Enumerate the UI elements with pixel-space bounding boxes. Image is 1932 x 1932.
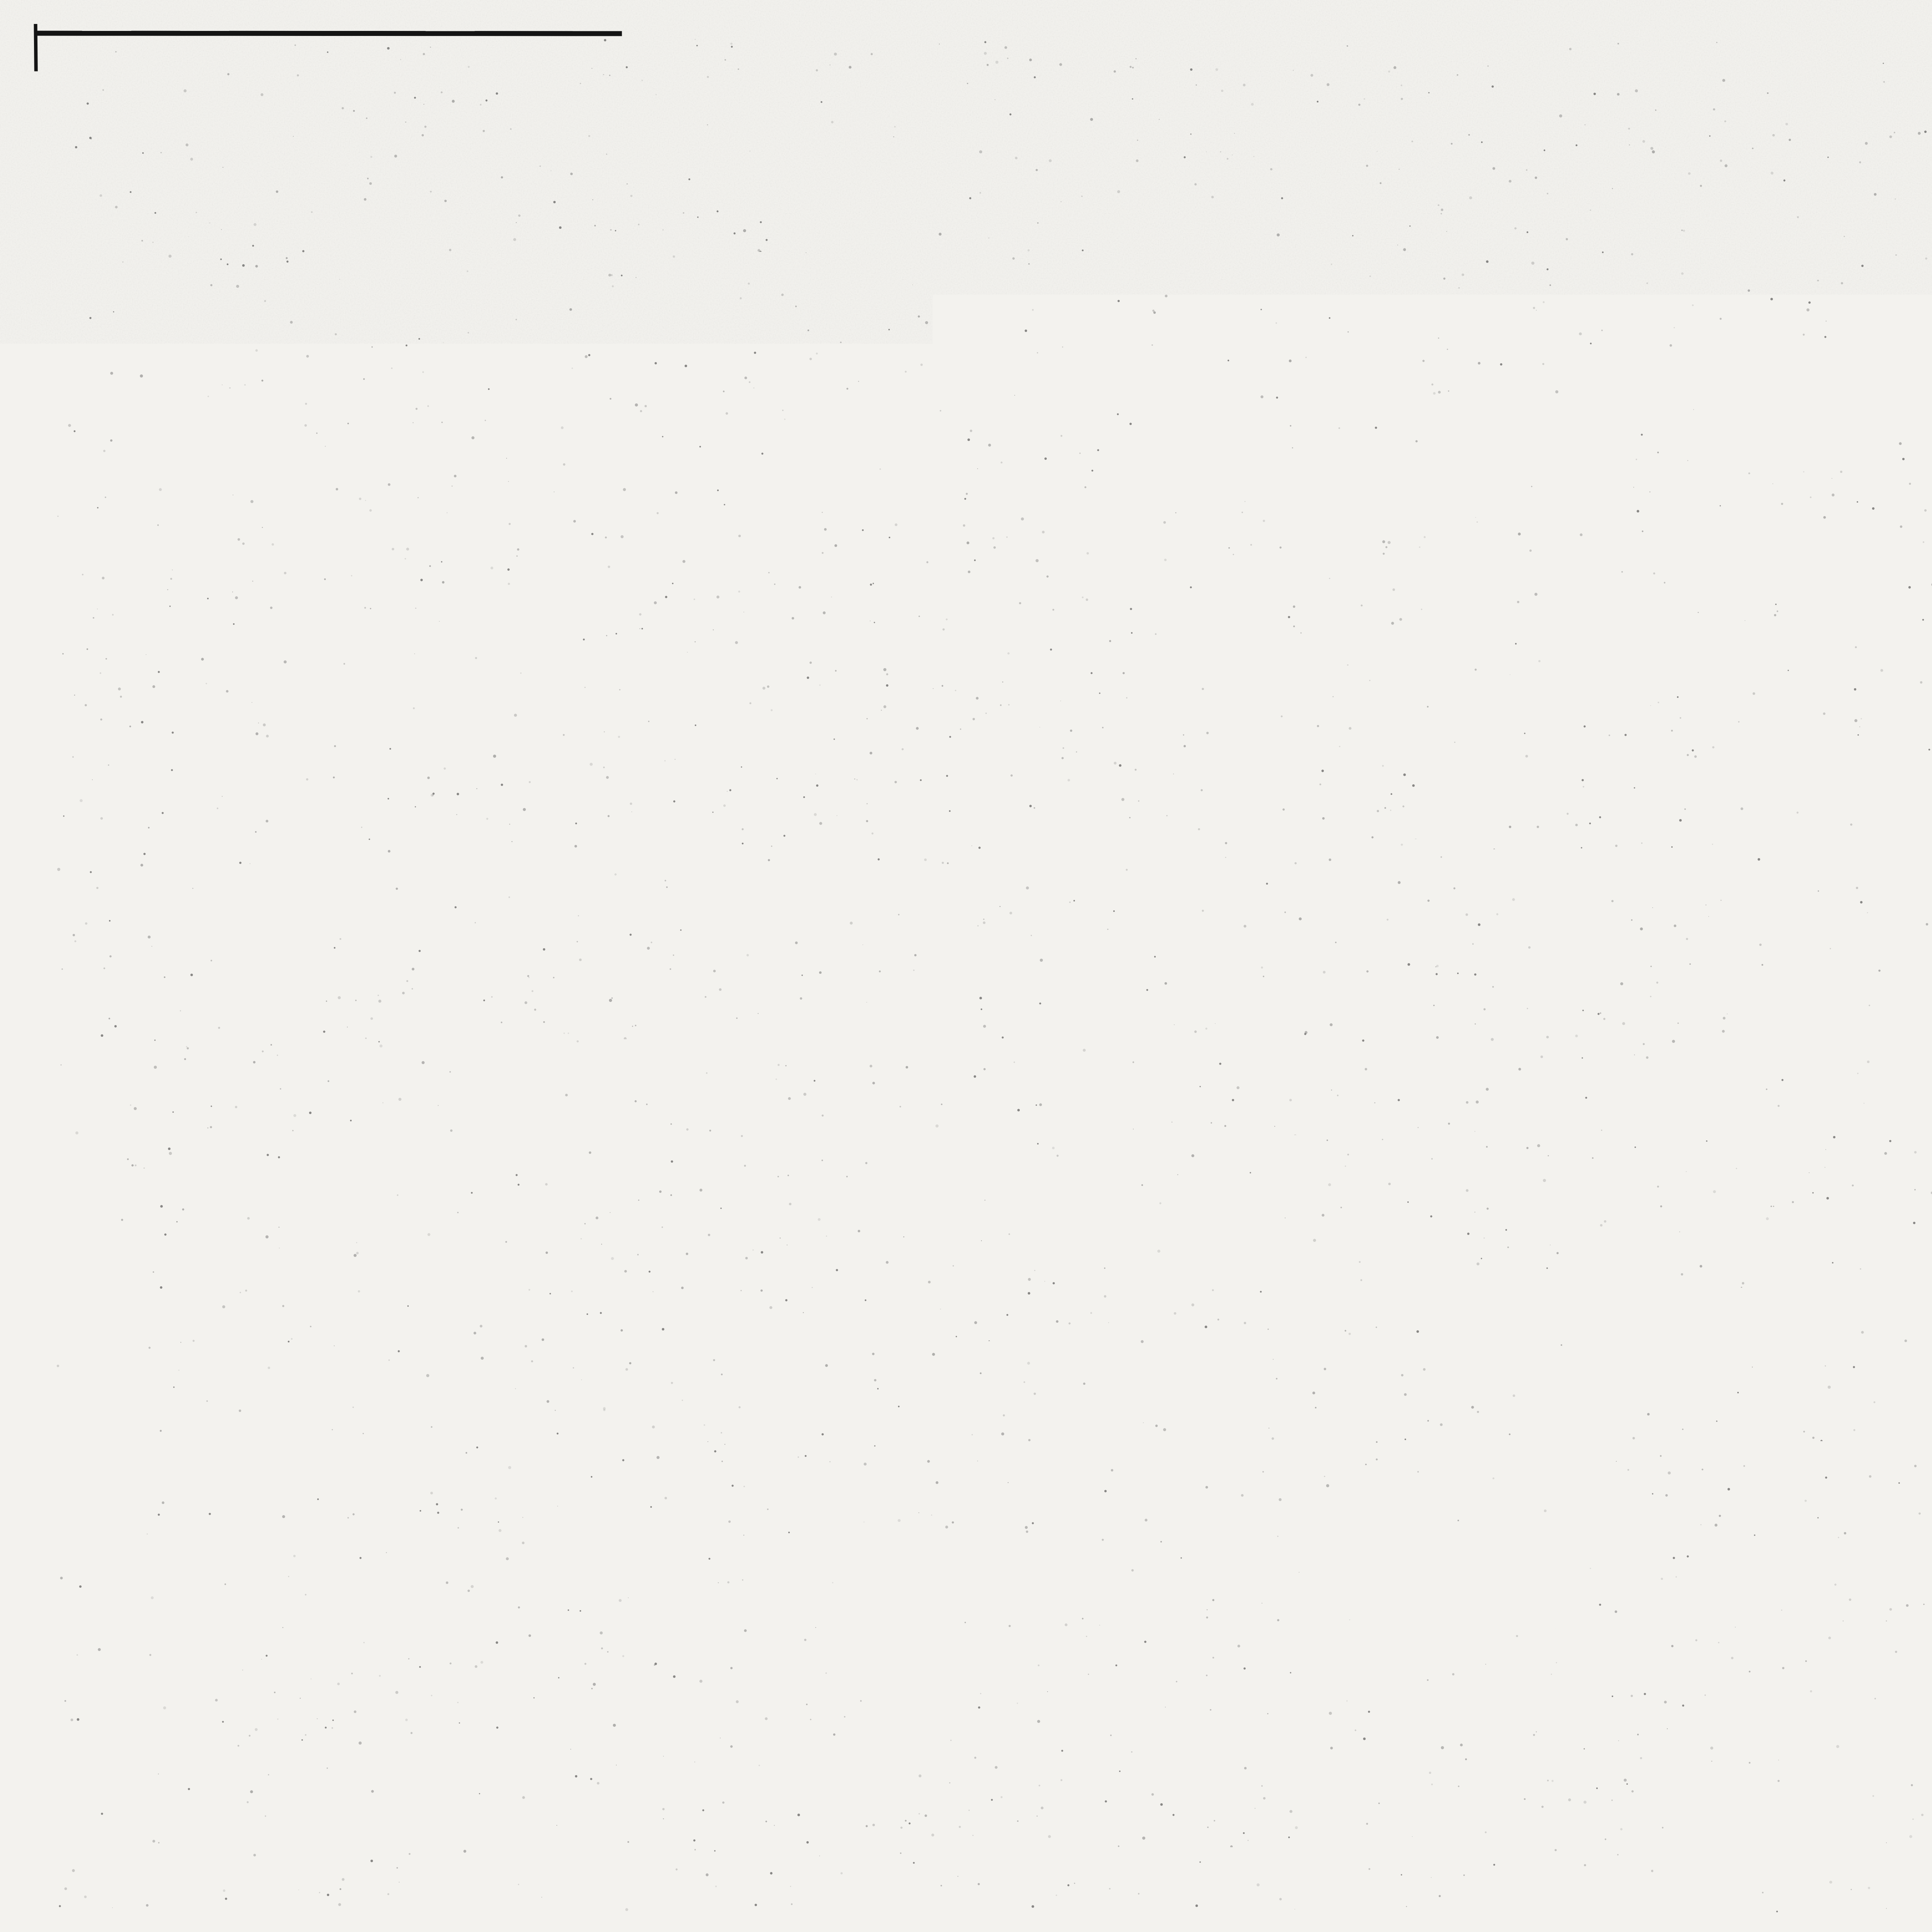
dim 3280 (P3) bbox=[1190, 1081, 1244, 1107]
rot dims left (9-9) bbox=[1009, 1608, 1156, 1678]
svg-text:Нач.отд.: Нач.отд. bbox=[1838, 1689, 1901, 1706]
dim 6000 (4-4) bbox=[502, 1454, 777, 1490]
plate label -60x8 (P4) bbox=[1816, 487, 1926, 514]
funnel 4-4 left slope bbox=[529, 1127, 625, 1248]
step plate (P2) bbox=[1089, 851, 1103, 893]
column B body (4-4) bbox=[732, 1140, 791, 1443]
dim 5160 (P4) bbox=[1923, 661, 1932, 707]
dim 1000 1000 (P3) bbox=[1300, 1126, 1489, 1192]
svg-text:9: 9 bbox=[1051, 1267, 1063, 1292]
funnel 4-4 deck bbox=[228, 1125, 857, 1136]
svg-text:105: 105 bbox=[1566, 505, 1607, 536]
dim 150x33=4950 (P1) bbox=[1242, 506, 1401, 534]
section 5-5 title bbox=[1713, 197, 1816, 240]
dim 6000 (3-3) bbox=[502, 744, 777, 781]
svg-text:ПО ЧЕРТ. МАРКИ „КН”: ПО ЧЕРТ. МАРКИ „КН” bbox=[198, 1008, 435, 1031]
label angle90x7 (3-3) bbox=[605, 490, 660, 509]
svg-text:150×33= 4950: 150×33= 4950 bbox=[1242, 506, 1401, 534]
step plate (P1) bbox=[1087, 463, 1102, 506]
label angle90x7 (4-4) bbox=[605, 1202, 660, 1221]
svg-text:2: 2 bbox=[1910, 1041, 1922, 1065]
svg-text:1880: 1880 bbox=[1451, 1079, 1505, 1106]
svg-text:Пащенко: Пащенко bbox=[1916, 1808, 1932, 1825]
strip body (7-7) bbox=[1726, 1188, 1745, 1333]
svg-text:∠90×7: ∠90×7 bbox=[605, 490, 660, 509]
svg-text:Р 2: Р 2 bbox=[1260, 636, 1316, 677]
svg-text:50: 50 bbox=[1451, 1167, 1471, 1187]
svg-text:А: А bbox=[498, 806, 516, 833]
svg-text:1000: 1000 bbox=[1415, 1126, 1465, 1151]
axis bubble B (4-4) bbox=[753, 1492, 796, 1536]
dim row 150-300-2550 (3-3) bbox=[461, 657, 813, 691]
funnel 4-4 bolt pockets bbox=[570, 1131, 690, 1174]
mark 9 (P2) bbox=[1037, 811, 1068, 840]
inner frame bottom bbox=[87, 1853, 1932, 1855]
svg-text:-60×8: -60×8 bbox=[1821, 487, 1879, 512]
misc ticks (9-9) bbox=[1070, 1551, 1575, 1558]
axis line A (4-4) bbox=[505, 1094, 506, 1491]
label 100 (6-6) bbox=[1723, 852, 1761, 896]
svg-text:Н.контр.: Н.контр. bbox=[1838, 1709, 1901, 1726]
weld note (4-4) bbox=[174, 918, 614, 1155]
dim verticals (5-5) bbox=[1730, 317, 1820, 469]
label -60x8 (5-5) bbox=[1613, 255, 1717, 379]
svg-text:-100×8: -100×8 bbox=[1633, 1355, 1704, 1380]
svg-text:6 — 6: 6 — 6 bbox=[1702, 627, 1797, 667]
dim 1880 (P3) bbox=[1451, 1079, 1505, 1106]
svg-text:-60×8: -60×8 bbox=[1387, 1620, 1446, 1645]
dim 800 800 (4-4) bbox=[582, 1002, 694, 1047]
label angle135x6 (4-4) bbox=[610, 1225, 667, 1242]
svg-text:-3000: -3000 bbox=[240, 1192, 301, 1219]
label -60x8 (9-9) bbox=[1376, 1598, 1454, 1649]
funnel 3-3 bolt pockets bbox=[570, 420, 690, 462]
dim 5160 (P1) bbox=[1084, 551, 1561, 589]
svg-text:200: 200 bbox=[553, 342, 590, 366]
panel P1 grid bbox=[1087, 324, 1547, 463]
dim 105 right (P1) bbox=[1566, 505, 1607, 536]
svg-text:Р 1: Р 1 bbox=[1281, 199, 1336, 240]
svg-text:Подпись и дата: Подпись и дата bbox=[88, 1610, 103, 1713]
svg-text:∠100×7: ∠100×7 bbox=[602, 467, 669, 487]
ext lines (P3) bbox=[1096, 1347, 1564, 1474]
svg-text:150 150 105: 150 150 105 bbox=[1498, 1527, 1602, 1548]
svg-text:9: 9 bbox=[1898, 408, 1910, 433]
svg-text:-100×8: -100×8 bbox=[1607, 517, 1678, 542]
slope triangle (3-3) bbox=[680, 485, 741, 556]
svg-text:3000: 3000 bbox=[551, 1412, 605, 1440]
svg-text:Б: Б bbox=[766, 1501, 783, 1528]
outer border left bbox=[36, 24, 54, 1910]
panel P3 grid bbox=[1096, 1191, 1563, 1345]
label -60x8 top (P2) bbox=[1530, 663, 1622, 743]
dim 105 left (P2) bbox=[1054, 886, 1095, 916]
callout SB left (3-3) bbox=[417, 522, 608, 636]
axis bubble B (3-3) bbox=[753, 798, 796, 841]
svg-text:Инв.№подл.: Инв.№подл. bbox=[88, 1761, 103, 1841]
panel P2 title bbox=[1228, 636, 1378, 682]
svg-text:2550: 2550 bbox=[665, 1368, 718, 1395]
section 7-7 title bbox=[1695, 1016, 1809, 1059]
svg-text:9: 9 bbox=[1037, 815, 1049, 840]
svg-text:∠135×6: ∠135×6 bbox=[610, 513, 667, 530]
dim 3000 (3-3) bbox=[502, 699, 644, 735]
mark 19 (P1) bbox=[1562, 423, 1586, 447]
dim 150x33=4950 (P3) bbox=[1250, 1380, 1417, 1408]
svg-text:А: А bbox=[498, 1501, 516, 1528]
dim 150x33=4950 (P2) bbox=[1231, 883, 1397, 910]
svg-text:ЗАКЛАДНОЙ ДЕТАЛИ: ЗАКЛАДНОЙ ДЕТАЛИ bbox=[198, 977, 429, 1001]
left dim stack (4-4) bbox=[310, 1126, 863, 1251]
svg-text:800: 800 bbox=[586, 293, 624, 319]
svg-text:300: 300 bbox=[512, 1370, 548, 1394]
plate label -100x8 (P2) bbox=[958, 757, 1198, 789]
svg-text:4 — 4: 4 — 4 bbox=[587, 923, 696, 968]
panel P3 title bbox=[1252, 1019, 1376, 1069]
svg-text:6: 6 bbox=[1464, 655, 1477, 680]
svg-text:Разраб.: Разраб. bbox=[1838, 1808, 1896, 1825]
svg-text:6: 6 bbox=[1473, 881, 1486, 906]
leader lines 225 row (P3) bbox=[1248, 1179, 1532, 1198]
svg-text:SB: SB bbox=[900, 1135, 931, 1160]
left end plate (9-9) bbox=[1043, 1573, 1109, 1625]
svg-text:5: 5 bbox=[1477, 251, 1490, 276]
svg-text:100: 100 bbox=[1737, 1360, 1772, 1383]
svg-text:150: 150 bbox=[777, 1367, 813, 1392]
left margin stamp table bbox=[86, 1473, 131, 1852]
svg-text:лист 13: лист 13 bbox=[696, 226, 810, 257]
svg-text:-3000: -3000 bbox=[240, 482, 301, 509]
svg-text:-100×8: -100×8 bbox=[1835, 366, 1906, 391]
svg-text:3000: 3000 bbox=[551, 699, 605, 727]
step plate (P3) bbox=[1096, 1345, 1111, 1387]
svg-text:7: 7 bbox=[1167, 1124, 1180, 1150]
svg-text:7 — 7: 7 — 7 bbox=[1701, 1016, 1797, 1056]
svg-text:-60×8: -60×8 bbox=[1638, 1121, 1697, 1146]
svg-text:Учитель: Учитель bbox=[1916, 1729, 1932, 1746]
slope triangle (4-4) bbox=[497, 1196, 585, 1268]
axis bubble A (4-4) bbox=[486, 1492, 529, 1536]
svg-text:150 150: 150 150 bbox=[1485, 1555, 1557, 1575]
svg-text:7: 7 bbox=[1172, 1376, 1185, 1401]
dim 105 right (P2) bbox=[1567, 883, 1608, 913]
svg-text:150×33 = 4950: 150×33 = 4950 bbox=[1250, 1380, 1417, 1408]
svg-text:800: 800 bbox=[646, 293, 685, 319]
outer border top bbox=[36, 33, 1932, 35]
svg-text:2550: 2550 bbox=[665, 658, 718, 685]
svg-text:225: 225 bbox=[1316, 1156, 1352, 1179]
callout SB right (4-4) bbox=[757, 1132, 930, 1160]
callout SB right (3-3) bbox=[704, 444, 922, 546]
svg-text:200: 200 bbox=[654, 342, 690, 366]
svg-text:лист 13: лист 13 bbox=[719, 933, 833, 964]
ext lines (P2) bbox=[1089, 744, 1558, 978]
svg-text:200: 200 bbox=[553, 1055, 590, 1080]
svg-text:2090: 2090 bbox=[1107, 1651, 1156, 1676]
title 3-3 bbox=[537, 217, 810, 264]
svg-text:200: 200 bbox=[620, 342, 656, 366]
ext lines (P1) bbox=[1087, 327, 1556, 597]
svg-text:5160: 5160 bbox=[1295, 1431, 1353, 1460]
strip body (5-5) bbox=[1713, 323, 1729, 466]
label 100 (7-7) bbox=[1728, 1333, 1772, 1384]
step plate (P4) bbox=[1926, 464, 1932, 507]
ext lines bottom (P4) bbox=[1926, 467, 1932, 711]
svg-text:6000: 6000 bbox=[613, 744, 670, 772]
svg-text:200: 200 bbox=[654, 1055, 690, 1080]
svg-text:100: 100 bbox=[1702, 499, 1736, 522]
section mark 6 bottom (P2) bbox=[1464, 869, 1502, 906]
svg-text:2550: 2550 bbox=[563, 1370, 617, 1396]
plate label -100x8 (P1) bbox=[973, 355, 1196, 386]
dim line 4950 (P2) bbox=[1098, 885, 1546, 930]
dim line 4950 (P1) bbox=[1097, 506, 1544, 549]
axis line B (3-3) bbox=[773, 383, 774, 795]
svg-text:Ведомость элементов по серии: Ведомость элементов по серии 1.450,3-3 bbox=[1926, 1196, 1932, 1221]
album label bbox=[83, 725, 121, 906]
label -60x8 (7-7) bbox=[1638, 1121, 1728, 1235]
svg-text:8: 8 bbox=[1371, 1195, 1381, 1215]
column B body (3-3) bbox=[732, 429, 791, 731]
svg-text:5: 5 bbox=[1493, 505, 1506, 531]
notch label 500 (P3) bbox=[1283, 1195, 1493, 1236]
title block signatures text bbox=[1838, 1689, 1932, 1825]
funnel 4-4 right slope bbox=[655, 1127, 749, 1248]
dim 400 400 (4-4) bbox=[583, 1249, 682, 1314]
svg-text:105: 105 bbox=[1903, 246, 1932, 276]
section mark 6 top (P2) bbox=[1458, 655, 1500, 713]
triangle+2850 (7-7) bbox=[1692, 1143, 1746, 1189]
level -3000 (3-3) bbox=[212, 482, 332, 536]
svg-text:225: 225 bbox=[1253, 1156, 1289, 1179]
svg-text:200: 200 bbox=[620, 1055, 656, 1080]
right dim stack (P1) bbox=[1547, 286, 1673, 499]
dim 5160 (P3) bbox=[1093, 1431, 1570, 1469]
axis line B (4-4) bbox=[773, 1094, 774, 1491]
dim 200 row (3-3) bbox=[509, 342, 774, 410]
svg-text:2550: 2550 bbox=[563, 660, 617, 686]
note vedomost line1 bbox=[1926, 1196, 1932, 1221]
svg-text:-100×8: -100×8 bbox=[980, 1205, 1053, 1231]
level -0.150 (3-3) bbox=[222, 355, 330, 415]
strip body (6-6) bbox=[1719, 742, 1735, 852]
svg-text:150×33 = 4950: 150×33 = 4950 bbox=[1231, 883, 1397, 910]
svg-text:105: 105 bbox=[1061, 1384, 1102, 1414]
svg-text:МОНТАЖЕ К: МОНТАЖЕ К bbox=[198, 948, 333, 971]
dim 1880 (plan) bbox=[1913, 991, 1932, 1028]
svg-text:3980: 3980 bbox=[1767, 900, 1815, 924]
svg-text:SB: SB bbox=[903, 1310, 935, 1335]
funnel 4-4 anchor bolts bbox=[585, 1012, 690, 1249]
svg-text:Взамен инв.№: Взамен инв.№ bbox=[88, 1479, 103, 1573]
svg-text:800: 800 bbox=[586, 1002, 624, 1028]
svg-text:125: 125 bbox=[1405, 1157, 1439, 1179]
svg-text:300: 300 bbox=[512, 660, 548, 684]
section 9-9 title bbox=[1230, 1488, 1398, 1543]
label angle135x6 (3-3) bbox=[610, 513, 667, 530]
svg-text:2090: 2090 bbox=[1523, 1650, 1571, 1675]
dim verticals (6-6) bbox=[1737, 737, 1824, 862]
svg-text:Мениботская: Мениботская bbox=[1916, 1747, 1932, 1764]
axis dash between bubbles (3-3) bbox=[560, 814, 603, 815]
svg-text:800: 800 bbox=[646, 1002, 685, 1028]
svg-text:План площадки на отм. 3.980.: План площадки на отм. 3.980. bbox=[1900, 734, 1932, 767]
svg-text:Рапопорт: Рапопорт bbox=[1916, 1767, 1932, 1784]
section mark 5 top (P1) bbox=[1466, 251, 1499, 296]
label 120 (5-5) bbox=[1716, 258, 1762, 307]
svg-text:200: 200 bbox=[585, 342, 621, 366]
funnel 3-3 left slope bbox=[529, 415, 625, 536]
axis line A (3-3) bbox=[505, 383, 506, 795]
plan title bbox=[1878, 734, 1932, 776]
inner frame top bbox=[114, 78, 1932, 80]
section mark 7 bottom (P3) bbox=[1164, 1363, 1200, 1401]
svg-text:-60×8: -60×8 bbox=[1613, 255, 1672, 280]
dim line 4950 (P3) bbox=[1105, 1376, 1553, 1430]
dim row 150-300-2550 (4-4) bbox=[461, 1367, 813, 1401]
label -60x8 (6-6) bbox=[1658, 685, 1724, 742]
dims right (9-9) bbox=[1485, 1527, 1602, 1575]
funnel 3-3 right slope bbox=[655, 415, 749, 536]
funnel 3-3 level lines bbox=[332, 414, 769, 508]
axis ext lines (plan) bbox=[1913, 916, 1932, 1034]
funnel 4-4 neck bbox=[618, 1247, 662, 1441]
svg-text:2140: 2140 bbox=[680, 532, 728, 556]
svg-text:9 — 9: 9 — 9 bbox=[1282, 1488, 1380, 1529]
left dim stack (3-3) bbox=[310, 384, 456, 543]
svg-text:Провер.: Провер. bbox=[1838, 1788, 1899, 1805]
svg-text:1000: 1000 bbox=[1321, 1126, 1371, 1151]
svg-text:-100×8: -100×8 bbox=[1221, 1621, 1291, 1646]
funnel 4-4 level lines bbox=[332, 1126, 769, 1219]
svg-text:-100×8: -100×8 bbox=[977, 355, 1050, 381]
svg-text:105 150 150: 105 150 150 bbox=[1077, 1529, 1180, 1549]
label -100x8 (7-7) bbox=[1633, 1333, 1729, 1387]
label 120 (7-7) bbox=[1743, 1126, 1790, 1177]
svg-text:400: 400 bbox=[583, 570, 622, 595]
inner frame left bbox=[129, 78, 132, 1854]
right end plate (9-9) bbox=[1556, 1573, 1611, 1617]
svg-text:-100×8: -100×8 bbox=[1639, 889, 1708, 913]
svg-text:Капитульский: Капитульский bbox=[1916, 1689, 1932, 1706]
svg-text:150: 150 bbox=[777, 657, 813, 682]
label -100x8 (6-6) bbox=[1638, 864, 1721, 917]
callout SB lower (4-4) bbox=[626, 1229, 934, 1335]
section mark 5 bottom (P1) bbox=[1484, 493, 1520, 531]
dim 800 800 (3-3) bbox=[582, 293, 694, 339]
dim verticals (7-7) bbox=[1673, 1185, 1838, 1336]
column A body (4-4) bbox=[485, 1140, 539, 1443]
mark 9 (P1) bbox=[1046, 421, 1076, 450]
svg-text:3 — 3: 3 — 3 bbox=[564, 217, 672, 262]
svg-text:5160: 5160 bbox=[1277, 551, 1336, 581]
dim 200 row (4-4) bbox=[553, 1055, 690, 1080]
svg-text:2140: 2140 bbox=[537, 1244, 585, 1268]
svg-text:300: 300 bbox=[732, 1369, 768, 1393]
funnel 3-3 deck bbox=[435, 413, 850, 424]
svg-text:-60×8: -60×8 bbox=[1547, 663, 1605, 688]
dims left (9-9) bbox=[1077, 1529, 1190, 1575]
svg-text:Зав. гр.: Зав. гр. bbox=[1838, 1747, 1894, 1764]
dim 400 400 (3-3) bbox=[583, 537, 682, 603]
svg-text:-60×8: -60×8 bbox=[1660, 685, 1719, 710]
title block grid bbox=[1833, 1614, 1932, 1853]
plate label -60x8 (P1) bbox=[969, 464, 1147, 498]
funnel 3-3 anchor bolts bbox=[585, 301, 690, 537]
dim 105 left (P3) bbox=[1061, 1384, 1102, 1414]
title 4-4 bbox=[568, 923, 833, 969]
svg-text:Привязан:: Привязан: bbox=[1584, 1728, 1687, 1750]
panel P4 grid bbox=[1926, 327, 1932, 465]
level 3980 (plan) bbox=[1755, 900, 1932, 944]
svg-text:Инв.№: Инв.№ bbox=[1549, 1832, 1604, 1850]
dim horizontals (7-7) bbox=[1626, 1188, 1851, 1333]
svg-text:Вед.инж.: Вед.инж. bbox=[1838, 1767, 1906, 1784]
privyazan table bbox=[1542, 1715, 1833, 1853]
rot dims (7-7) bbox=[1635, 1166, 1837, 1365]
svg-text:-100×8: -100×8 bbox=[961, 757, 1034, 782]
svg-text:Альбом 2: Альбом 2 bbox=[83, 725, 121, 906]
plate label -100x8 (P4) bbox=[1824, 366, 1932, 396]
svg-text:∠100×7: ∠100×7 bbox=[602, 1179, 669, 1199]
right dim stack (3-3) bbox=[796, 377, 862, 537]
svg-text:150: 150 bbox=[461, 660, 497, 684]
grating strip (9-9) bbox=[1100, 1577, 1570, 1597]
level -3000 (4-4) bbox=[212, 1192, 332, 1248]
svg-text:300: 300 bbox=[732, 658, 768, 683]
dim 5160 (9-9) bbox=[1099, 1554, 1576, 1739]
svg-text:400: 400 bbox=[643, 570, 682, 595]
svg-text:5 — 5: 5 — 5 bbox=[1717, 197, 1812, 236]
svg-text:-0,150: -0,150 bbox=[246, 355, 314, 382]
plate label -100x8 (P3) bbox=[974, 1205, 1206, 1240]
dim 105 left (P1) bbox=[1053, 509, 1094, 539]
section 6-6 title bbox=[1677, 627, 1807, 679]
svg-text:SB: SB bbox=[417, 610, 449, 635]
rot dims (5-5) bbox=[1736, 326, 1812, 465]
level -0.150 (4-4) bbox=[222, 1065, 330, 1127]
axis bubble A (3-3) bbox=[486, 798, 529, 841]
svg-text:150: 150 bbox=[461, 1370, 497, 1394]
svg-text:Р 3: Р 3 bbox=[1289, 1019, 1344, 1060]
mark 9 (P3) bbox=[1051, 1263, 1081, 1292]
dim 5160 (P2) bbox=[1085, 932, 1562, 970]
svg-text:5160: 5160 bbox=[1284, 1669, 1340, 1698]
svg-text:200: 200 bbox=[585, 1055, 621, 1080]
svg-text:Б: Б bbox=[766, 806, 783, 833]
svg-text:175: 175 bbox=[1365, 1157, 1399, 1179]
rot dims (6-6) bbox=[1735, 719, 1813, 867]
label angle100x7 (4-4) bbox=[602, 1179, 669, 1199]
plan assembly drawing bbox=[1917, 840, 1932, 1001]
svg-text:-60×8: -60×8 bbox=[990, 1293, 1050, 1319]
dim 105 right (P3) bbox=[1565, 1382, 1606, 1412]
dim row 225 (P3) bbox=[1253, 1156, 1559, 1189]
svg-text:400: 400 bbox=[583, 1281, 622, 1306]
svg-text:100: 100 bbox=[1525, 1167, 1559, 1189]
svg-text:-0,150: -0,150 bbox=[246, 1065, 314, 1092]
svg-text:400: 400 bbox=[643, 1281, 682, 1306]
svg-text:10: 10 bbox=[509, 342, 533, 366]
svg-text:ПРИВАРИТЬ НА: ПРИВАРИТЬ НА bbox=[198, 918, 369, 942]
svg-text:105: 105 bbox=[1567, 883, 1608, 913]
funnel 3-3 neck bbox=[618, 536, 662, 728]
svg-text:SB: SB bbox=[891, 521, 922, 546]
svg-text:150 150: 150 150 bbox=[1117, 1555, 1190, 1575]
dim line (P4) bbox=[1923, 607, 1932, 657]
svg-text:3280: 3280 bbox=[1190, 1081, 1244, 1107]
svg-text:-60×8: -60×8 bbox=[975, 467, 1035, 493]
